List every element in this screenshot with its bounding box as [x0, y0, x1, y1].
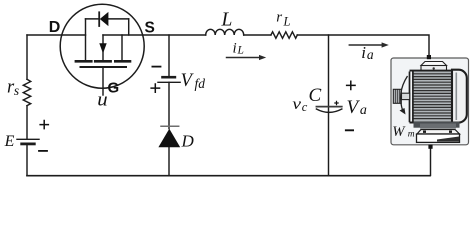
- mosfet body-diode right vertical: [128, 19, 130, 35]
- svg-text:E: E: [4, 133, 15, 150]
- battery E long plate: [17, 138, 39, 140]
- motor rotation arrow: [401, 76, 408, 112]
- plus sign of V_a: [346, 81, 356, 91]
- svg-text:L: L: [283, 15, 291, 29]
- motor fan knob: [393, 89, 401, 103]
- plus sign of capacitor C: [334, 101, 338, 105]
- svg-text:V: V: [347, 97, 361, 118]
- svg-text:L: L: [221, 10, 233, 31]
- svg-text:u: u: [97, 89, 107, 110]
- MOSFET U1 circle: [60, 4, 144, 88]
- svg-text:a: a: [360, 103, 367, 118]
- svg-text:L: L: [237, 44, 244, 56]
- current arrow i_a: [349, 44, 382, 46]
- plus sign of E: [39, 120, 49, 130]
- motor terminal box on body: [421, 62, 447, 66]
- svg-text:S: S: [145, 20, 155, 37]
- svg-text:r: r: [276, 10, 282, 26]
- diode D cathode bar: [161, 125, 179, 127]
- wire capacitor branch: [328, 35, 330, 175]
- wire top rail left (D side): [27, 34, 86, 36]
- svg-text:c: c: [302, 100, 308, 114]
- svg-text:V: V: [181, 71, 195, 91]
- svg-text:s: s: [14, 83, 19, 98]
- wire left branch top: [26, 35, 28, 79]
- mosfet channel bar middle: [95, 60, 110, 63]
- svg-text:v: v: [292, 96, 302, 113]
- motor pedestal front face: [417, 134, 460, 142]
- minus sign of V_a: [345, 129, 354, 131]
- svg-text:D: D: [49, 19, 61, 36]
- motor right end cap: [452, 70, 467, 123]
- mosfet source leg: [121, 35, 123, 60]
- svg-text:fd: fd: [195, 76, 206, 91]
- motor shaft: [402, 93, 410, 99]
- wire V_fd branch top: [168, 35, 170, 76]
- arrowhead i_L: [259, 55, 266, 60]
- svg-text:m: m: [408, 129, 415, 139]
- motor M1 box: [391, 55, 469, 149]
- battery E short plate: [22, 142, 35, 145]
- mosfet gate plate: [81, 66, 127, 68]
- wire top rail right (S side to motor corner): [103, 35, 429, 55]
- source V_fd short plate: [163, 76, 175, 79]
- capacitor C curved plate: [316, 109, 341, 112]
- wire V_fd to diode D: [168, 82, 170, 128]
- mosfet body-diode cathode bar: [98, 12, 100, 26]
- inductor L: [206, 29, 244, 35]
- wire resistor to battery: [26, 106, 28, 139]
- mosfet channel bar left: [76, 60, 91, 63]
- motor body fins: [414, 71, 457, 123]
- arrowhead i_a: [382, 42, 389, 47]
- resistor r_L: [271, 32, 297, 39]
- wire bottom rail: [27, 175, 430, 177]
- svg-text:G: G: [108, 79, 120, 96]
- mosfet body-diode top line: [86, 18, 129, 20]
- plus sign of V_fd: [150, 83, 160, 93]
- minus sign of E: [38, 150, 48, 152]
- mosfet body arrow head: [99, 43, 106, 53]
- mosfet channel bar right: [115, 60, 130, 63]
- svg-text:i: i: [233, 40, 237, 56]
- motor front rim: [410, 71, 413, 122]
- mosfet drain vertical: [85, 19, 87, 60]
- current arrow i_L: [227, 57, 260, 59]
- wire battery to bottom rail: [26, 145, 28, 175]
- motor pedestal top face: [417, 130, 460, 135]
- wire motor top lead into box: [428, 55, 430, 58]
- svg-text:a: a: [367, 47, 374, 62]
- motor terminal node top: [427, 55, 431, 59]
- motor terminal node bottom: [428, 145, 432, 149]
- svg-text:C: C: [309, 85, 322, 106]
- motor base band: [414, 122, 460, 128]
- diode D triangle: [158, 129, 180, 147]
- svg-text:D: D: [181, 132, 195, 151]
- minus sign of V_fd: [152, 66, 162, 68]
- motor body outline: [410, 70, 453, 72]
- mosfet body-diode triangle: [100, 12, 109, 26]
- source V_fd long plate: [158, 81, 180, 83]
- resistor r_s: [23, 79, 30, 105]
- mosfet body arrow shaft: [102, 35, 104, 60]
- mosfet gate lead: [102, 67, 104, 95]
- wire motor bottom riser: [430, 148, 432, 175]
- wire diode D to bottom rail: [168, 147, 170, 175]
- capacitor C top plate: [316, 106, 341, 108]
- svg-text:i: i: [361, 43, 366, 62]
- svg-text:W: W: [392, 124, 406, 140]
